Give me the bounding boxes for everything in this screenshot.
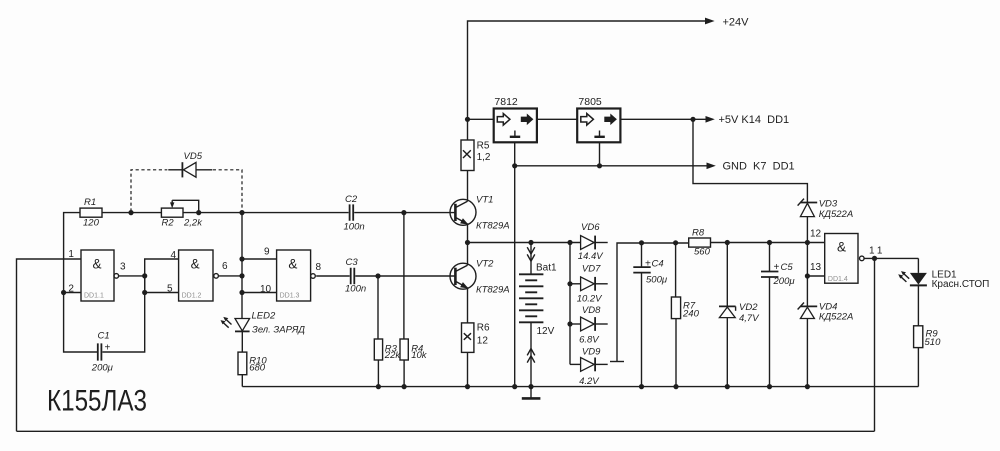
wire ground rail — [242, 386, 918, 388]
svg-text:12V: 12V — [537, 326, 555, 337]
capacitor C3 100n — [345, 257, 366, 295]
svg-text:240: 240 — [682, 308, 700, 319]
svg-text:&: & — [93, 257, 102, 272]
wire GND rail — [515, 165, 708, 167]
svg-text:9: 9 — [264, 246, 270, 257]
junction pin10 — [239, 290, 244, 295]
resistor R3 22k — [374, 339, 401, 361]
diode VD3 КД522А — [798, 199, 854, 220]
wire DD1.3 pin10 — [242, 292, 277, 294]
wire +5V output — [620, 118, 706, 120]
wire VT2 collector to rail — [467, 243, 469, 266]
wire +24V rail — [468, 21, 707, 140]
wire R5 to VT1 collector — [467, 171, 469, 202]
junction R6 gnd — [465, 384, 470, 389]
wire pin2 column to C1 — [64, 293, 98, 353]
wire C5 tap — [769, 243, 771, 272]
wire C3 to VT2 base — [355, 275, 454, 277]
resistor R5 — [461, 140, 491, 171]
wire pin12 to pin13 column — [806, 243, 808, 277]
svg-text:LED2: LED2 — [252, 310, 276, 321]
wire R2 to C2 node — [183, 212, 242, 214]
capacitor C1 200μ — [91, 331, 114, 374]
NAND gate DD1.1 — [68, 249, 126, 301]
wire VD2 tap — [726, 243, 728, 307]
svg-text:100n: 100n — [344, 221, 365, 232]
diode VD4 КД522А — [798, 301, 854, 322]
svg-text:VT1: VT1 — [476, 194, 493, 205]
resistor R8 560 — [689, 227, 711, 257]
wire DD1.4 output — [864, 257, 918, 259]
svg-text:10: 10 — [260, 284, 272, 295]
svg-text:КТ829А: КТ829А — [476, 284, 510, 295]
svg-text:200μ: 200μ — [773, 276, 796, 287]
junction VD2 gnd — [725, 384, 730, 389]
junction pin3 node — [142, 273, 147, 278]
wire DD1.1 pin1 to feedback — [17, 259, 82, 431]
wire R9 to ground rail — [917, 348, 919, 387]
svg-text:10k: 10k — [411, 350, 428, 361]
svg-text:3: 3 — [120, 262, 126, 273]
svg-text:DD1.1: DD1.1 — [84, 293, 104, 300]
wire 7805 ground pin — [599, 142, 601, 166]
svg-text:1,2: 1,2 — [477, 152, 491, 163]
wire R3 tap — [377, 276, 379, 339]
diode VD5 — [131, 151, 242, 212]
svg-text:VD7: VD7 — [582, 264, 601, 275]
svg-text:100n: 100n — [345, 284, 366, 295]
svg-text:+24V: +24V — [723, 17, 750, 29]
svg-text:VD9: VD9 — [582, 347, 601, 358]
wire 7812 to 7805 — [537, 118, 577, 120]
junction pin13 node — [805, 273, 810, 278]
junction R7 gnd — [673, 384, 678, 389]
svg-text:4.2V: 4.2V — [579, 376, 600, 387]
resistor R9 510 — [914, 326, 941, 348]
wire voltage-select bus — [617, 243, 689, 362]
svg-text:C5: C5 — [781, 262, 794, 273]
junction R3 tap — [375, 273, 380, 278]
wire C5 to ground rail — [769, 277, 771, 387]
resistor R1 120 — [80, 197, 102, 229]
wire DD1.3 pin9 — [242, 258, 277, 260]
junction C4 gnd — [639, 384, 644, 389]
wire R7 to ground rail — [675, 319, 677, 387]
diode VD6 14.4V — [578, 222, 608, 262]
wire pin13 to VD4 — [806, 276, 808, 306]
wire GND column to ground rail — [514, 166, 516, 387]
wire VD2 to ground rail — [726, 318, 728, 387]
resistor R10 680 — [238, 352, 267, 375]
wire DD1.1 pin2 — [64, 292, 81, 294]
junction DD1.2 out — [239, 273, 244, 278]
wire emitter rail to VD6 — [468, 242, 581, 244]
junction C5 tap — [767, 240, 772, 245]
wire R7 tap — [675, 243, 677, 297]
svg-text:VD8: VD8 — [582, 305, 601, 316]
svg-text:4: 4 — [171, 250, 177, 261]
svg-text:К155ЛА3: К155ЛА3 — [47, 385, 147, 418]
junction VD4 gnd — [805, 384, 810, 389]
svg-text:DD1.3: DD1.3 — [280, 293, 300, 300]
svg-text:7812: 7812 — [494, 96, 518, 108]
svg-text:GND K7 DD1: GND K7 DD1 — [723, 161, 795, 173]
wire R3 to ground rail — [377, 360, 379, 387]
wire VD3 to DD1.4 pin12 — [806, 217, 808, 243]
NAND gate DD1.3 — [260, 246, 322, 301]
wire feedback rail — [17, 430, 875, 432]
wire to DD1.2 pin5 — [145, 276, 179, 293]
diode VD8 6.8V — [570, 305, 608, 346]
svg-text:R1: R1 — [84, 197, 96, 208]
zener diode VD2 4,7V — [719, 302, 760, 324]
wire R4 tap — [403, 213, 405, 339]
svg-text:+: + — [774, 262, 780, 273]
svg-text:Зел. ЗАРЯД: Зел. ЗАРЯД — [252, 324, 305, 335]
junction 7805 gnd — [597, 163, 602, 168]
wire DD1.3 output to C3 — [316, 275, 350, 277]
junction output feedback — [872, 256, 877, 261]
wire battery top lead — [530, 243, 532, 275]
svg-text:7805: 7805 — [578, 96, 602, 108]
svg-text:Красн.СТОП: Красн.СТОП — [932, 279, 990, 290]
wire DD1.4 output drop — [874, 259, 876, 431]
wire DD1.1 output — [119, 275, 145, 277]
junction zener bus top — [567, 240, 572, 245]
junction +5V branch — [690, 117, 695, 122]
resistor R7 240 — [671, 297, 699, 319]
voltage regulator 7812 — [494, 96, 537, 142]
svg-text:13: 13 — [810, 262, 822, 273]
svg-text:14.4V: 14.4V — [578, 251, 604, 262]
wire R1 left to pin2 column — [64, 213, 80, 293]
wire output to LED1 — [917, 258, 919, 273]
capacitor C5 200μ — [761, 262, 795, 287]
svg-text:C2: C2 — [345, 194, 358, 205]
wire LED1 to R9 — [917, 285, 919, 325]
junction pin2 node — [61, 290, 66, 295]
svg-text:+: + — [645, 259, 651, 270]
svg-text:&: & — [191, 257, 200, 272]
wire DD1.2 output node to C2 — [242, 212, 349, 214]
svg-text:8: 8 — [316, 262, 322, 273]
junction 7812 gnd — [512, 163, 517, 168]
svg-text:6.8V: 6.8V — [579, 335, 600, 346]
junction VT1 emitter node — [465, 240, 470, 245]
svg-text:4,7V: 4,7V — [739, 313, 760, 324]
wire C2 to VT1 base — [354, 212, 455, 214]
power arrow +5V — [706, 116, 715, 123]
svg-text:DD1.2: DD1.2 — [182, 293, 202, 300]
battery Bat1 12V — [519, 263, 557, 338]
svg-text:C4: C4 — [652, 259, 664, 270]
wire C4 tap — [641, 243, 643, 267]
wire R1 to R2 — [102, 212, 161, 214]
NAND gate DD1.4 — [810, 229, 885, 284]
wire zener bus left — [569, 243, 571, 365]
wire VT2 emitter to R6 — [467, 288, 469, 323]
wire LED2 to R10 — [241, 331, 243, 352]
wire R4 to ground rail — [403, 360, 405, 387]
NAND gate DD1.2 — [167, 250, 228, 301]
junction battery bottom — [528, 384, 533, 389]
LED LED1 Красн.СТОП — [898, 269, 989, 290]
junction VD2 tap — [725, 240, 730, 245]
svg-text:R5: R5 — [477, 141, 490, 152]
svg-text:12: 12 — [477, 336, 489, 347]
wire VT1 emitter to rail — [467, 224, 469, 243]
svg-text:VD6: VD6 — [581, 222, 600, 233]
junction R4 tap — [401, 210, 406, 215]
wire DD1.4 pin13 — [807, 275, 824, 277]
junction R3 gnd — [376, 384, 381, 389]
svg-text:12: 12 — [810, 229, 822, 240]
transistor VT2 КТ829А — [450, 258, 510, 295]
svg-text:1: 1 — [68, 249, 74, 260]
junction VD8 anode — [567, 321, 572, 326]
svg-text:560: 560 — [694, 246, 711, 257]
wire battery bottom lead — [530, 322, 532, 386]
wire +5V branch to VD3 — [693, 119, 807, 202]
wire VD4 to ground rail — [806, 319, 808, 387]
junction C4 tap — [639, 240, 644, 245]
current arrows from battery — [527, 349, 535, 363]
svg-text:КД522А: КД522А — [819, 209, 853, 220]
junction battery top — [528, 240, 533, 245]
junction VD5 right / C2 node — [239, 210, 244, 215]
svg-text:+5V K14 DD1: +5V K14 DD1 — [719, 114, 790, 126]
svg-text:680: 680 — [249, 363, 266, 374]
resistor R6 — [462, 323, 491, 353]
power arrow +24V — [705, 18, 715, 25]
junction R2 wiper — [196, 210, 201, 215]
svg-text:VD5: VD5 — [184, 151, 203, 162]
svg-text:КД522А: КД522А — [819, 312, 853, 323]
junction pin9 — [239, 256, 244, 261]
wire 7812 input — [468, 118, 494, 120]
svg-text:VT2: VT2 — [476, 258, 494, 269]
svg-text:R2: R2 — [162, 218, 175, 229]
diode VD9 4.2V — [570, 347, 608, 387]
svg-text:2,2k: 2,2k — [183, 218, 203, 229]
junction GND column gnd — [512, 384, 517, 389]
svg-text:200μ: 200μ — [91, 363, 114, 374]
svg-text:10.2V: 10.2V — [577, 294, 603, 305]
junction R7 tap — [673, 240, 678, 245]
svg-text:КТ829А: КТ829А — [476, 220, 510, 231]
capacitor C2 100n — [344, 194, 365, 232]
svg-text:500μ: 500μ — [646, 275, 668, 286]
wire C1 to pin3 node — [102, 276, 144, 352]
svg-text:&: & — [837, 240, 846, 255]
wire 7812 ground pin — [514, 142, 516, 166]
svg-text:R8: R8 — [692, 227, 705, 238]
wire R8 to DD1.4 pin12 — [711, 242, 825, 244]
junction pin12 node — [805, 240, 810, 245]
svg-text:2: 2 — [68, 284, 74, 295]
wire R6 to ground rail — [467, 352, 469, 386]
potentiometer R2 2,2k — [161, 200, 203, 228]
capacitor C4 500μ — [633, 259, 668, 286]
junction 24V input node — [465, 117, 470, 122]
voltage regulator 7805 — [577, 96, 620, 142]
wire to DD1.2 pin4 — [145, 259, 179, 276]
svg-text:Bat1: Bat1 — [536, 263, 557, 274]
wire R10 to ground rail — [241, 375, 243, 387]
current arrows into battery — [527, 247, 535, 261]
power arrow GND — [707, 163, 716, 170]
svg-text:120: 120 — [83, 218, 100, 229]
transistor VT1 КТ829А — [450, 194, 510, 231]
svg-text:11: 11 — [869, 246, 885, 257]
svg-text:5: 5 — [167, 284, 173, 295]
junction R4 gnd — [402, 384, 407, 389]
resistor R4 10k — [400, 339, 428, 361]
wire DD1.2 output — [218, 275, 242, 277]
junction pin5 corner — [142, 290, 147, 295]
svg-text:6: 6 — [222, 261, 228, 272]
bus terminal tick — [610, 361, 624, 363]
wire C4 to ground rail — [641, 273, 643, 387]
svg-text:C3: C3 — [346, 257, 359, 268]
junction C5 gnd — [767, 384, 772, 389]
LED LED2 Зел.ЗАРЯД — [221, 310, 306, 335]
wire DD1.3 input column — [241, 213, 243, 319]
junction VD7 anode — [567, 281, 572, 286]
svg-text:VD2: VD2 — [739, 302, 758, 313]
svg-text:&: & — [288, 257, 297, 272]
svg-text:510: 510 — [925, 337, 942, 348]
svg-text:R6: R6 — [477, 323, 490, 334]
svg-text:DD1.4: DD1.4 — [828, 276, 848, 283]
svg-text:22k: 22k — [384, 350, 402, 361]
svg-text:C1: C1 — [98, 331, 110, 342]
junction VD5 left — [128, 210, 133, 215]
diode VD7 10.2V — [570, 264, 608, 305]
ground symbol — [522, 387, 541, 399]
